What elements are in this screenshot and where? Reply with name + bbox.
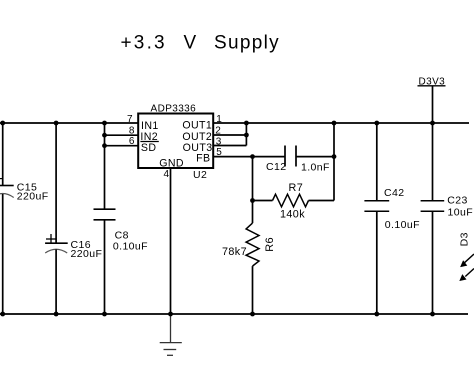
junction bottom rail C15 <box>0 312 5 317</box>
resistor R7 <box>253 182 335 221</box>
svg-text:OUT1: OUT1 <box>182 120 212 132</box>
svg-text:220uF: 220uF <box>17 191 49 203</box>
svg-text:C12: C12 <box>266 161 286 173</box>
wire pin 6 stub <box>105 145 139 147</box>
net label D3V3 <box>418 77 446 88</box>
junction top rail R7 <box>332 121 337 126</box>
wire pin 4 GND stub <box>170 168 172 314</box>
svg-text:OUT2: OUT2 <box>182 131 212 143</box>
svg-text:220uF: 220uF <box>71 248 103 260</box>
junction top rail C16 <box>54 121 59 126</box>
svg-text:V: V <box>184 33 197 54</box>
svg-text:78k7: 78k7 <box>222 246 247 258</box>
svg-text:FB: FB <box>196 152 210 164</box>
wire top rail left <box>0 122 138 124</box>
wire pin 3 stub <box>213 145 246 147</box>
svg-text:7: 7 <box>127 114 133 125</box>
junction bottom rail C8 <box>102 312 107 317</box>
svg-text:C42: C42 <box>384 187 404 199</box>
junction R7 left <box>250 198 255 203</box>
svg-text:0.10uF: 0.10uF <box>385 219 420 231</box>
wire pin 5 FB stub <box>213 156 253 158</box>
junction top rail C15 <box>0 121 5 126</box>
junction pin 2 <box>244 133 249 138</box>
capacitor C23 <box>421 123 473 314</box>
junction top rail C42 <box>374 121 379 126</box>
junction FB node <box>250 154 255 159</box>
svg-text:1.0nF: 1.0nF <box>301 162 330 174</box>
svg-text:GND: GND <box>159 158 184 170</box>
svg-text:C23: C23 <box>447 195 467 207</box>
svg-text:140k: 140k <box>280 209 305 221</box>
svg-text:ADP3336: ADP3336 <box>151 104 197 115</box>
svg-text:10uF: 10uF <box>448 206 474 218</box>
junction top rail pins <box>102 121 107 126</box>
capacitor C8 <box>94 209 148 314</box>
svg-text:Supply: Supply <box>214 33 280 54</box>
junction bottom rail C42 <box>374 312 379 317</box>
junction bottom rail ground <box>168 312 173 317</box>
junction bottom rail C16 <box>54 312 59 317</box>
capacitor C15 <box>0 123 49 314</box>
svg-text:0.10uF: 0.10uF <box>113 241 148 253</box>
svg-text:D3: D3 <box>458 232 470 246</box>
voltage regulator U2 ADP3336 <box>138 104 213 181</box>
svg-text:+3.3: +3.3 <box>121 33 167 54</box>
wire top rail right <box>213 122 469 124</box>
wire pin 2 stub <box>213 134 246 136</box>
LED D3 <box>458 232 474 280</box>
capacitor C16 <box>45 123 102 314</box>
wire input pins vertical <box>104 123 106 210</box>
junction top rail D3V3 <box>430 121 435 126</box>
svg-text:R7: R7 <box>289 182 304 194</box>
wire D3V3 stub <box>432 87 434 124</box>
junction pin 6 <box>102 143 107 148</box>
wire FB vertical left <box>252 157 254 201</box>
junction top rail outputs <box>244 121 249 126</box>
ground <box>160 314 182 355</box>
junction bottom rail C23 <box>430 312 435 317</box>
capacitor C12 <box>253 146 335 174</box>
wire bottom rail <box>0 313 468 315</box>
junction pin 8 <box>102 133 107 138</box>
wire FB vertical right <box>333 123 335 201</box>
svg-text:4: 4 <box>164 169 170 180</box>
svg-text:SD: SD <box>141 142 157 154</box>
junction bottom rail R6 <box>250 312 255 317</box>
svg-text:U2: U2 <box>193 169 207 181</box>
svg-text:R6: R6 <box>264 237 276 252</box>
junction C12 right <box>332 154 337 159</box>
resistor R6 <box>222 201 276 315</box>
wire pin 8 stub <box>105 134 139 136</box>
capacitor C42 <box>364 123 419 314</box>
wire output pins vertical <box>245 123 247 146</box>
svg-text:1: 1 <box>216 114 222 125</box>
